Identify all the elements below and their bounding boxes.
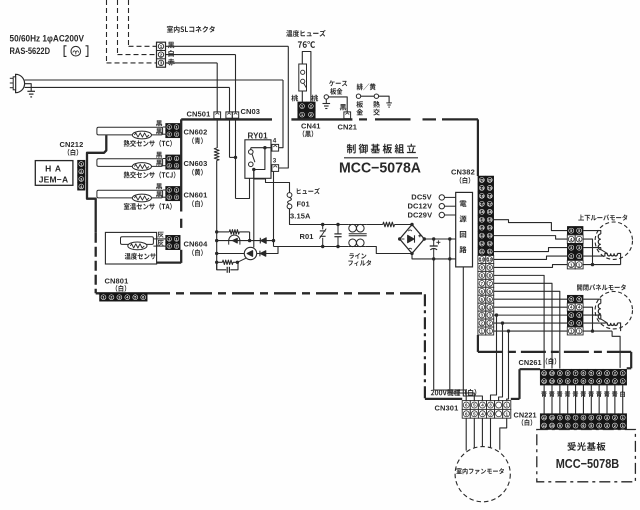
dashed wire to SL pin3 (aka) — [106, 0, 108, 63]
label aka (red wire) — [168, 59, 175, 66]
svg-text:CN261: CN261 — [519, 358, 542, 367]
label indoor SL connector — [167, 26, 215, 33]
wire between terminals — [361, 95, 375, 97]
svg-text:9: 9 — [559, 372, 561, 376]
wire triac2 row left — [217, 253, 245, 255]
svg-text:1: 1 — [176, 157, 178, 161]
wire left rail — [216, 161, 218, 270]
svg-text:3: 3 — [606, 424, 608, 428]
title underline — [344, 157, 418, 159]
wire DC+ rail — [424, 238, 455, 240]
board outline CN212 protrusion — [87, 135, 106, 233]
board outline bottom under CN801 — [96, 292, 148, 294]
svg-text:5: 5 — [590, 372, 592, 376]
terminal DC29V — [439, 212, 444, 217]
node branch pin1 — [507, 329, 510, 332]
wires CN604 — [153, 238, 165, 240]
svg-text:11: 11 — [542, 416, 546, 420]
label CN604 shiro — [192, 249, 203, 256]
node xcap top — [336, 223, 339, 226]
wire AC line L (top) — [25, 79, 283, 81]
svg-text:5: 5 — [570, 298, 572, 302]
wire CN382-7 to CN261-10 — [494, 283, 552, 368]
wire L rail to bridge — [367, 224, 383, 226]
svg-text:CN221: CN221 — [514, 410, 537, 419]
line filter coil top — [349, 224, 357, 232]
wire fan 1 — [500, 418, 507, 450]
svg-text:2: 2 — [310, 104, 312, 109]
node CN03 join — [234, 156, 237, 159]
node left rail a — [215, 230, 218, 233]
svg-text:CN03: CN03 — [241, 107, 261, 116]
svg-text:1: 1 — [168, 157, 170, 161]
wire CN382-8 to CN261-11 — [494, 275, 544, 368]
labels wire colors ao/shiro — [541, 391, 625, 397]
wire case-gnd to CN21 — [329, 97, 348, 112]
connector SL (3-pin) — [157, 42, 166, 67]
label hai pair — [157, 232, 163, 238]
svg-text:3: 3 — [606, 372, 608, 376]
label CN602 color — [192, 137, 203, 144]
thermal fuse body — [299, 64, 307, 91]
wires CN603 stubs — [163, 158, 166, 160]
svg-text:18: 18 — [480, 194, 484, 198]
board edge right drop to CN382 — [477, 119, 479, 176]
svg-text:2: 2 — [570, 321, 572, 325]
connector CN604 (2x2) — [166, 235, 181, 249]
svg-text:8: 8 — [567, 416, 569, 420]
svg-text:2: 2 — [110, 296, 112, 300]
wire CN382-13 to louver r4 — [494, 236, 568, 239]
svg-text:3: 3 — [578, 245, 580, 250]
svg-text:15: 15 — [488, 218, 492, 222]
title control board assy — [347, 144, 416, 154]
svg-text:11: 11 — [480, 250, 484, 254]
wire CN03 right into board — [235, 118, 237, 198]
wire SL2 white — [166, 54, 236, 56]
node snubber — [236, 261, 239, 264]
connector panel motor (2x5) — [567, 295, 583, 335]
label CN603 color — [192, 169, 203, 176]
svg-text:20: 20 — [480, 178, 484, 182]
wire N rail — [274, 246, 349, 248]
wire CN501 into board — [216, 118, 218, 148]
label CN212 shiro — [68, 149, 79, 156]
svg-text:2: 2 — [578, 321, 580, 325]
svg-text:DC5V: DC5V — [411, 192, 431, 201]
label fuse — [297, 188, 320, 194]
relay contact upper — [249, 150, 254, 155]
wire panel to CN261 — [612, 331, 620, 368]
svg-text:2: 2 — [168, 164, 170, 168]
svg-text:2: 2 — [614, 380, 616, 384]
wire panel r1 — [583, 330, 612, 332]
connector louver motor (2x5) — [567, 226, 583, 269]
svg-text:9: 9 — [559, 416, 561, 420]
label kuro pair CN603 — [156, 152, 162, 158]
board edge left dash — [180, 219, 182, 228]
label line filter — [349, 253, 366, 259]
svg-text:3: 3 — [570, 245, 572, 250]
wire common down to triac2 — [253, 170, 255, 248]
node bridge right — [423, 237, 426, 240]
power plug — [16, 74, 25, 92]
louver winding 1 — [598, 234, 601, 250]
wire panel r5 — [583, 299, 601, 303]
svg-text:8: 8 — [567, 424, 569, 428]
svg-text:10: 10 — [550, 380, 554, 384]
svg-text:2: 2 — [614, 416, 616, 420]
node dc- a — [432, 257, 435, 260]
svg-text:8: 8 — [567, 372, 569, 376]
capacitor X-cap — [337, 225, 339, 234]
svg-text:12: 12 — [488, 242, 492, 246]
svg-text:13: 13 — [480, 234, 484, 238]
svg-text:3: 3 — [606, 416, 608, 420]
resistor (CN501 series) — [214, 148, 219, 161]
wire to small ground — [379, 96, 390, 103]
svg-text:2: 2 — [168, 196, 170, 200]
border CN301 to step — [511, 398, 520, 400]
connector CN221 (2x11) — [540, 414, 626, 430]
board edge top dashes to right — [359, 118, 367, 120]
label panel motor — [577, 284, 626, 290]
svg-text:1: 1 — [622, 372, 624, 376]
motor louver (dashed circle) — [595, 222, 632, 259]
svg-text:CN501: CN501 — [187, 110, 211, 119]
relay contact lower — [249, 162, 254, 167]
svg-text:3: 3 — [578, 314, 580, 318]
wire winding2 return — [618, 253, 621, 264]
svg-text:RAS-5622D: RAS-5622D — [10, 46, 51, 56]
label case sheet-metal — [329, 80, 347, 86]
wire panel r3 — [583, 315, 601, 319]
connector CN261 (2x11) — [540, 369, 626, 385]
svg-text:2: 2 — [310, 112, 312, 117]
wire AC line N (bottom) — [25, 86, 230, 88]
plug prongs — [10, 77, 13, 79]
wire louver r2 — [583, 253, 607, 256]
svg-text:5: 5 — [578, 298, 580, 302]
node R01 bottom — [321, 245, 324, 248]
svg-text:15: 15 — [480, 218, 484, 222]
relay wire common — [254, 148, 265, 170]
terminal DC12V — [439, 204, 444, 209]
node branch pin2 — [501, 321, 504, 324]
panel winding 2 — [607, 323, 617, 326]
wire SL1 black — [166, 45, 289, 47]
wire loop thermal fuse — [302, 52, 311, 102]
node left rail d — [215, 261, 218, 264]
wire CN382-3 to panel r3 — [494, 314, 568, 316]
svg-text:4: 4 — [273, 137, 277, 144]
svg-text:11: 11 — [488, 250, 492, 254]
connector CN801 (1x6) — [100, 293, 148, 301]
svg-text:6: 6 — [582, 372, 584, 376]
label 200V model — [431, 389, 477, 396]
wire CN382-10 to louver r2 — [494, 256, 568, 259]
svg-text:1: 1 — [160, 44, 163, 49]
svg-text:6: 6 — [582, 416, 584, 420]
wire CN382-15 to louver r5 — [494, 220, 568, 231]
label CN221 shiro — [522, 419, 533, 426]
svg-text:10: 10 — [550, 424, 554, 428]
svg-text:MCC−5078B: MCC−5078B — [556, 456, 620, 471]
svg-text:10: 10 — [550, 416, 554, 420]
receiver board box (dash-dot) — [537, 430, 636, 482]
label kuro pair CN602 — [156, 120, 162, 126]
thermistor CN602 cable — [97, 127, 163, 135]
wire CN382-9 to louver r1 — [494, 265, 568, 268]
resistor (inrush) — [383, 222, 395, 227]
wire triac2 row right — [257, 247, 278, 254]
bridge rectifier — [400, 225, 425, 254]
resistor (snubber) — [217, 261, 223, 263]
thermistor CN601 cable — [97, 190, 163, 198]
svg-text:1: 1 — [176, 188, 178, 192]
triac Q1 (arc symbol) — [229, 235, 240, 245]
node dc+ a — [432, 237, 435, 240]
board outline left dashed — [95, 233, 97, 293]
node relay common — [252, 168, 255, 171]
label kuro CN21 — [340, 104, 346, 110]
thermistor CN604 cable — [121, 237, 154, 245]
label bankin vertical — [356, 101, 363, 108]
diode D2 — [259, 251, 261, 257]
node dc- b — [448, 257, 451, 260]
wire CN382-6 to CN261-9 — [494, 291, 560, 368]
approval mark — [64, 46, 66, 57]
wire panel r4 — [583, 307, 592, 331]
wire to earth — [25, 84, 32, 92]
svg-text:3.15A: 3.15A — [290, 212, 311, 221]
svg-text:3: 3 — [80, 177, 82, 181]
svg-text:19: 19 — [480, 186, 484, 190]
board edge step to CN261 — [630, 352, 632, 368]
wire pin3-box down to N rail — [273, 172, 275, 247]
terminal DC5V — [439, 195, 444, 200]
label hi/ki wire colors — [357, 83, 376, 90]
svg-text:7: 7 — [575, 372, 577, 376]
svg-text:CN603: CN603 — [184, 159, 208, 168]
svg-text:1: 1 — [168, 188, 170, 192]
node relay j1 — [263, 146, 266, 149]
node R01 top — [321, 223, 324, 226]
label momo right — [311, 95, 318, 102]
label kuro pair CN601 — [156, 183, 162, 189]
connector CN41 — [298, 102, 316, 119]
svg-text:11: 11 — [542, 380, 546, 384]
ground (small) — [386, 102, 392, 104]
wires CN601 stubs — [163, 189, 166, 191]
wire CN03 join — [230, 156, 236, 158]
svg-text:1: 1 — [168, 125, 170, 129]
ground (mains earth) — [27, 90, 35, 92]
terminal netsuko — [374, 94, 378, 98]
wire p-winding1-2 — [601, 319, 608, 323]
connector CN603 (2x2) — [166, 155, 181, 169]
label netsuko vertical — [373, 101, 380, 108]
border step up — [518, 369, 520, 399]
wire F01 to L rail — [290, 209, 349, 225]
svg-text:1: 1 — [176, 237, 178, 241]
wire fan 5 — [473, 418, 475, 448]
wire branch to CN301-3 — [491, 315, 497, 400]
svg-text:19: 19 — [488, 186, 492, 190]
pin CN03 left — [226, 112, 232, 118]
capacitor (electrolytic) — [433, 239, 435, 246]
label receiver board — [567, 442, 605, 451]
label onda sensor — [125, 253, 156, 260]
wire drop to CN03 right — [235, 55, 237, 112]
label sensor CN602 — [124, 140, 172, 147]
board edge CN261 right stub — [627, 367, 632, 369]
node dc+ b — [448, 237, 451, 240]
svg-text:3: 3 — [606, 380, 608, 384]
wire common to F01 — [254, 170, 290, 193]
wire CN382-11 to louver r3 — [494, 248, 568, 252]
svg-text:7: 7 — [575, 380, 577, 384]
wire fan 4 — [481, 418, 483, 446]
pin CN21 (shiro) — [344, 112, 351, 119]
wire SL3 red — [166, 62, 218, 64]
wire fan 3 — [490, 418, 492, 448]
motor panel (dashed circle) — [595, 292, 632, 329]
svg-text:13: 13 — [488, 234, 492, 238]
label shiro (white wire) — [168, 50, 173, 57]
terminal case ground — [324, 95, 328, 99]
varistor R01 — [322, 225, 324, 230]
wire branch to CN301-1 — [507, 331, 509, 401]
wire louver r5 — [583, 231, 601, 234]
svg-text:2: 2 — [80, 170, 82, 174]
board edge spur to sensor box — [157, 261, 182, 263]
svg-text:16: 16 — [488, 210, 492, 214]
thermistor CN604 oval — [128, 242, 147, 250]
pin RY01-3 — [272, 165, 279, 172]
svg-text:20: 20 — [488, 178, 492, 182]
wire gate corner — [249, 232, 251, 241]
svg-text:2: 2 — [176, 196, 178, 200]
svg-text:18: 18 — [488, 194, 492, 198]
svg-text:DC29V: DC29V — [408, 210, 433, 219]
thermistor CN603 cable — [97, 159, 163, 167]
wire panel r2 — [583, 322, 607, 324]
svg-text:5: 5 — [590, 424, 592, 428]
board edge under CN41/CN21 — [291, 118, 352, 120]
border to CN301 — [425, 398, 462, 400]
svg-text:CN801: CN801 — [105, 276, 129, 285]
svg-text:3: 3 — [273, 158, 277, 165]
svg-text:2: 2 — [160, 52, 163, 57]
wire dcminus down to CN301 — [434, 259, 467, 401]
wire p-winding2 return — [618, 323, 621, 331]
wire drop to CN03 left — [229, 87, 231, 111]
svg-text:5: 5 — [590, 416, 592, 420]
svg-text:5: 5 — [590, 380, 592, 384]
label thermal fuse — [286, 30, 325, 37]
connector CN301 (2x6) — [462, 401, 511, 419]
label CN382 shiro — [460, 177, 471, 184]
svg-text:MCC−5078A: MCC−5078A — [339, 160, 422, 176]
louver winding 2 — [607, 253, 617, 256]
node louver common — [591, 263, 594, 266]
connector CN382 (2x20) — [478, 176, 494, 335]
wire louver r4 — [583, 239, 592, 265]
resistor (triac1 gate) — [217, 231, 230, 233]
svg-text:2: 2 — [570, 254, 572, 259]
label momo left — [291, 95, 298, 102]
node left rail b — [215, 239, 218, 242]
svg-text:11: 11 — [542, 424, 546, 428]
label kuro (black wire) — [168, 42, 175, 49]
connector CN212 (1x4) — [78, 160, 86, 190]
motor indoor fan (dashed circle) — [455, 447, 510, 502]
wire CN382-4 to panel r4 — [494, 306, 568, 308]
svg-text:2: 2 — [168, 133, 170, 137]
wire branch to CN301-x — [499, 323, 503, 401]
svg-text:2: 2 — [614, 372, 616, 376]
capacitor (snubber) — [217, 262, 227, 270]
connector CN602 (2x2) — [166, 123, 181, 137]
pin RY01-4 — [272, 144, 279, 151]
node bridge left — [398, 237, 401, 240]
board edge left solid — [180, 119, 182, 211]
triac Q2 (circle) — [244, 247, 256, 259]
wire CN382-2 to panel r2 — [494, 322, 568, 324]
svg-text:1: 1 — [168, 237, 170, 241]
svg-text:2: 2 — [578, 254, 580, 259]
svg-text:7: 7 — [575, 416, 577, 420]
label sensor CN601 — [124, 203, 172, 210]
svg-text:6: 6 — [582, 424, 584, 428]
fuse F01 — [287, 193, 292, 198]
node bridge bottom — [410, 252, 413, 255]
svg-text:F01: F01 — [297, 199, 310, 208]
line filter coil bottom — [349, 239, 357, 247]
dashed wire to SL pin1 (kuro) — [128, 0, 130, 46]
svg-text:CN21: CN21 — [338, 122, 358, 131]
svg-text:10: 10 — [487, 257, 492, 262]
board edge bottom-right (dash-dot) — [478, 351, 631, 353]
svg-text:CN601: CN601 — [184, 191, 208, 200]
border step to CN261 — [520, 368, 541, 370]
wire drop to CN501 — [216, 63, 218, 112]
wire louver r3 — [583, 248, 601, 250]
svg-text:7: 7 — [575, 424, 577, 428]
node left rail c — [215, 252, 218, 255]
svg-text:CN41: CN41 — [301, 121, 321, 130]
HA terminal box — [35, 161, 73, 186]
node xcap bottom — [336, 245, 339, 248]
board outline bottom dashed — [148, 292, 425, 294]
svg-text:12: 12 — [480, 242, 484, 246]
room sensor box — [105, 232, 156, 264]
svg-text:11: 11 — [542, 372, 546, 376]
diode D1 — [259, 238, 261, 244]
wire drop to RY01 pin4 — [279, 80, 283, 148]
wire drop to RY01 pin3 — [279, 46, 289, 168]
svg-text:2: 2 — [176, 133, 178, 137]
label CN261 shiro — [546, 358, 557, 365]
wire CN382-1 to panel r1 — [494, 330, 568, 332]
label CN801 shiro — [116, 285, 127, 292]
label CN601 color — [192, 200, 203, 207]
svg-text:2: 2 — [168, 245, 170, 249]
relay stub upper contact — [250, 148, 252, 150]
wire triac1 row — [217, 240, 274, 242]
label CN41 black — [303, 130, 314, 137]
